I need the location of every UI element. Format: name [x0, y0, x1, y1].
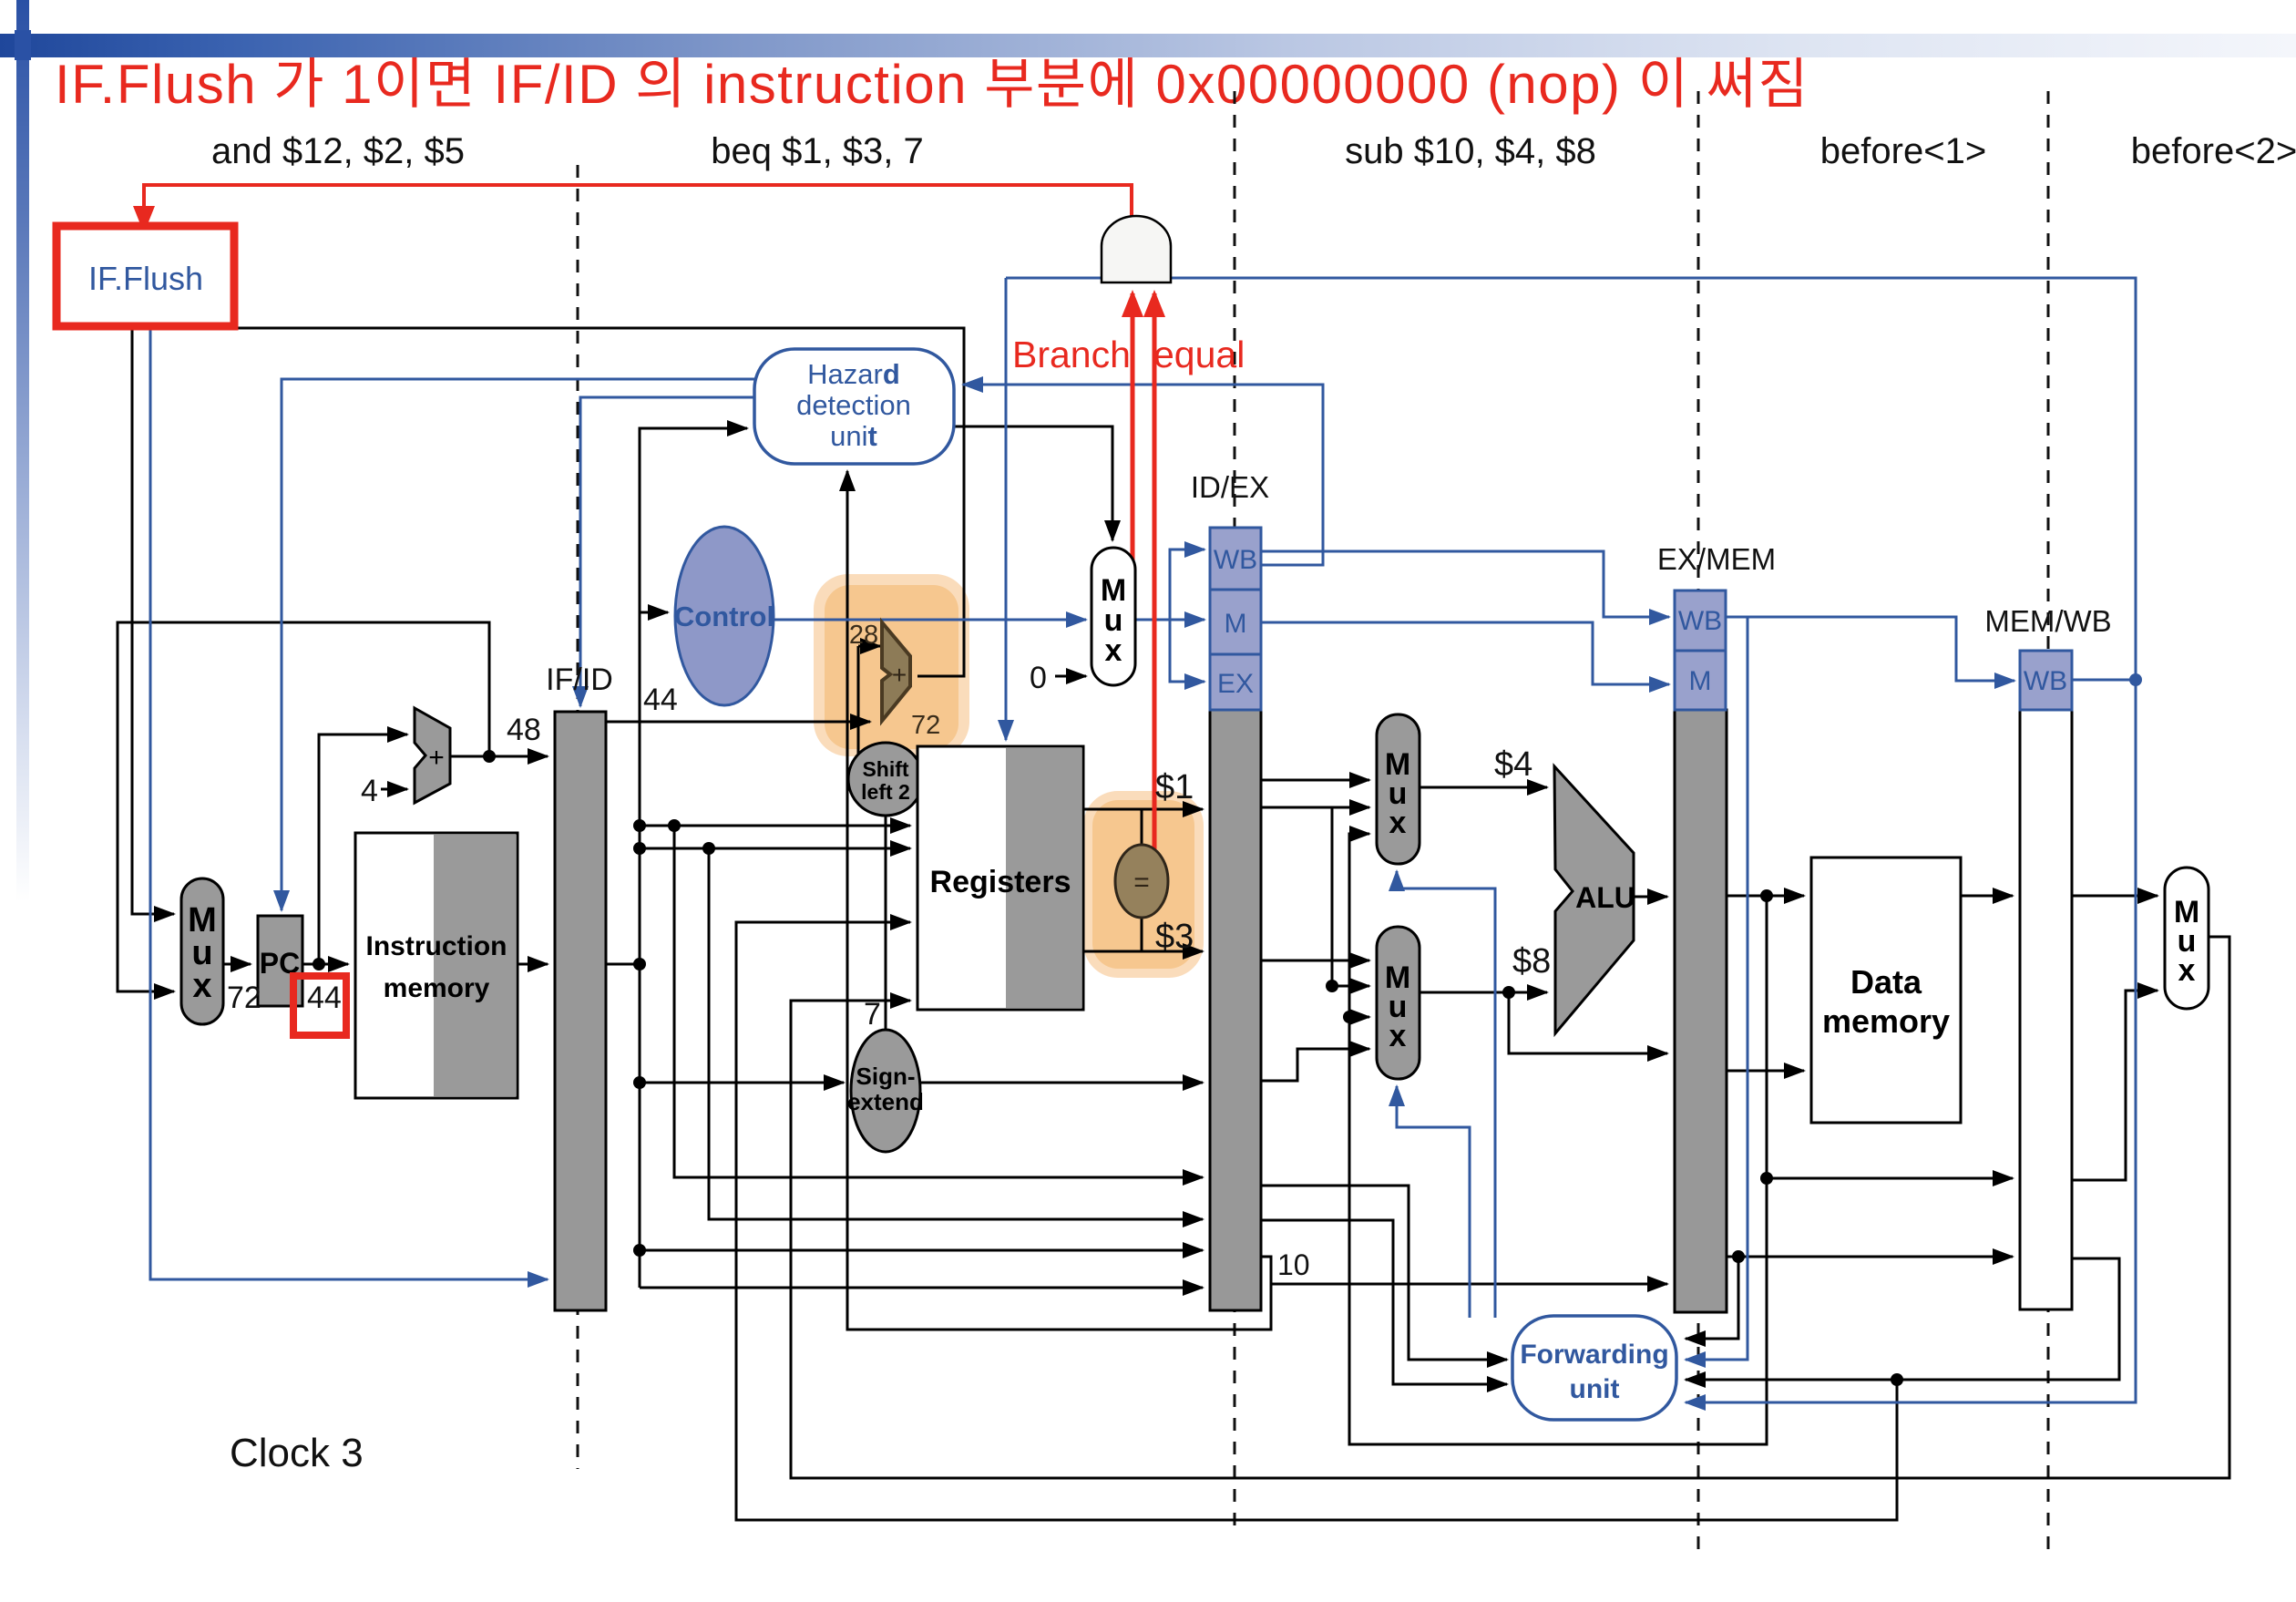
svg-text:Sign-: Sign- — [856, 1063, 916, 1090]
svg-text:Registers: Registers — [930, 865, 1071, 899]
wire: Branch signal up into AND gate — [1131, 293, 1135, 630]
wire: ID/EX read1 to ALU mux A input 1 — [1261, 779, 1369, 782]
junction: bus to read register 1 — [633, 819, 646, 832]
wire: discard mux output to ID/EX M — [1135, 619, 1204, 621]
Hazard detection unit — [754, 349, 954, 464]
stage divider dashed line 3 — [1697, 91, 1700, 1549]
wire: instruction bus up into hazard detection unit — [640, 427, 738, 430]
junction: writeback register number tap — [1891, 1373, 1903, 1386]
MEM/WB WB box — [2020, 651, 2072, 710]
wire: writeback riser joining both forward muxes — [1332, 807, 1369, 986]
wire: forwarding select A up to ALU mux A — [1397, 871, 1495, 1318]
svg-text:detection: detection — [796, 389, 911, 421]
wire: bus stub into Control — [640, 611, 668, 614]
wire: hazard IF/IDWrite to IF/ID — [580, 397, 754, 706]
svg-text:unit: unit — [830, 420, 877, 452]
junction: bus to read register 2 — [633, 842, 646, 855]
svg-text:x: x — [1105, 633, 1122, 668]
svg-text:x: x — [192, 967, 211, 1005]
wire: MEM/WB ALU result to writeback mux — [2072, 991, 2158, 1180]
svg-text:$3: $3 — [1155, 918, 1194, 956]
ID/EX M box — [1210, 590, 1261, 654]
ID/EX WB box — [1210, 528, 1261, 590]
svg-text:Clock 3: Clock 3 — [230, 1431, 364, 1475]
wire: rd field down to ID/EX — [709, 848, 1203, 1219]
wire: EX/MEM rd register number to MEM/WB — [1727, 1256, 2013, 1258]
wire: EX/MEM WB to MEM/WB WB — [1726, 617, 2014, 681]
wire: MEM/WB read data to writeback mux — [2072, 895, 2158, 898]
junction: PC+4 tap — [483, 750, 496, 763]
svg-text:=: = — [1133, 868, 1150, 898]
wire: constant 4 into adder — [381, 788, 407, 791]
wire: EX/MEM rd down into forwarding unit — [1686, 1257, 1738, 1339]
wire: IF.Flush from AND gate to IF.Flush box — [144, 185, 1132, 230]
AND gate (IF.Flush = Branch AND equal) — [1102, 216, 1171, 282]
wire: ALU mux A output $4 — [1420, 786, 1547, 789]
wire: instruction field to ID/EX lower — [640, 1287, 1203, 1289]
wire: ID/EX WB feed to hazard unit — [963, 385, 1323, 565]
svg-text:beq $1, $3, 7: beq $1, $3, 7 — [711, 131, 924, 171]
wire: ID/EX M to EX/MEM M — [1261, 622, 1669, 684]
stage divider dashed line 1 — [577, 165, 579, 1469]
junction: ALU result tap — [1760, 889, 1773, 902]
wire: writeback value to ALU mux A input 2 — [1261, 806, 1369, 809]
discard mux (zeroes control) — [1092, 548, 1135, 685]
wire: EX/MEM WB down to forwarding unit — [1686, 617, 1748, 1360]
svg-text:and $12, $2, $5: and $12, $2, $5 — [211, 131, 465, 171]
svg-text:48: 48 — [507, 713, 541, 747]
writeback mux — [2165, 868, 2209, 1009]
junction: instruction stub on bus — [633, 958, 646, 970]
wire: Control output to discard mux — [774, 619, 1086, 621]
Forwarding unit — [1512, 1316, 1676, 1420]
wire: ALU output to EX/MEM — [1634, 896, 1667, 899]
wire: IF/ID instruction stub to bus — [606, 963, 640, 966]
wire: ID/EX WB to EX/MEM WB — [1261, 551, 1669, 617]
svg-text:$1: $1 — [1155, 768, 1194, 806]
equality comparator — [1115, 845, 1168, 918]
EX/MEM pipeline register — [1675, 710, 1727, 1312]
junction: writeback riser to mux B — [1326, 980, 1338, 992]
junction: store data tap — [1502, 986, 1515, 999]
svg-text:EX/MEM: EX/MEM — [1657, 542, 1776, 576]
wire: writeback data loop from final mux to Registers — [791, 937, 2229, 1478]
svg-text:x: x — [1389, 1019, 1407, 1053]
svg-text:$4: $4 — [1494, 745, 1532, 784]
wire: store data from mux B to EX/MEM — [1509, 992, 1667, 1053]
svg-text:72: 72 — [227, 981, 261, 1015]
svg-text:Forwarding: Forwarding — [1520, 1340, 1668, 1370]
wire: EX/MEM ALU result to data memory address — [1727, 895, 1804, 898]
wire: ID/EX read2 to ALU mux B input 1 — [1261, 960, 1369, 962]
svg-text:Branch: Branch — [1012, 334, 1131, 375]
svg-text:before<1>: before<1> — [1820, 131, 1986, 171]
junction: upper field tap — [633, 1244, 646, 1257]
branch adder (highlighted) — [882, 622, 910, 721]
svg-text:Shift: Shift — [862, 757, 908, 781]
svg-text:4: 4 — [361, 774, 378, 808]
wire: forward loop branch to ALU mux B input 3 — [1349, 1016, 1369, 1019]
svg-text:$8: $8 — [1512, 942, 1551, 981]
stage divider dashed line 4 — [2047, 91, 2050, 1549]
svg-text:28: 28 — [849, 621, 878, 650]
svg-text:Instruction: Instruction — [366, 931, 507, 961]
svg-text:WB: WB — [1214, 545, 1257, 575]
junction: ALU result to MEM/WB — [1760, 1172, 1773, 1185]
svg-text:72: 72 — [911, 711, 940, 740]
svg-text:unit: unit — [1570, 1374, 1620, 1404]
wire: shift-left-2 output up into branch adder — [858, 645, 880, 648]
Control unit ellipse — [675, 527, 774, 705]
svg-text:memory: memory — [1822, 1002, 1950, 1040]
svg-text:M: M — [1225, 609, 1247, 639]
wire: instruction vertical bus — [640, 428, 747, 1288]
junction: PC output tap — [313, 958, 325, 970]
svg-text:sub $10, $4, $8: sub $10, $4, $8 — [1345, 131, 1596, 171]
wire: hazard unit output to control mux select — [954, 426, 1112, 540]
wire: PC value riser to +4 adder top input — [319, 734, 407, 964]
svg-text:10: 10 — [1277, 1248, 1310, 1281]
svg-text:x: x — [2178, 953, 2196, 988]
wire: register read data 1 ($1) to ID/EX — [1083, 808, 1203, 811]
wire: EX/MEM store data to data memory — [1727, 1070, 1804, 1073]
wire: read register 2 — [640, 847, 910, 850]
wire: register number 10 to EX/MEM — [1261, 1257, 1667, 1284]
wire: MEM/WB rd to forwarding unit — [1686, 1258, 2119, 1380]
svg-text:ID/EX: ID/EX — [1191, 470, 1269, 504]
svg-text:Hazard: Hazard — [807, 358, 900, 390]
orange highlight around branch adder — [814, 574, 969, 756]
junction: rd field tap — [702, 842, 715, 855]
red highlight box near PC output (44) — [293, 976, 346, 1035]
svg-text:WB: WB — [1678, 606, 1722, 636]
wire: RegWrite down into Registers — [1005, 278, 1008, 740]
MEM/WB pipeline register — [2020, 710, 2072, 1309]
svg-text:IF.Flush: IF.Flush — [88, 260, 203, 297]
wire: immediate field to sign-extend — [640, 1082, 844, 1084]
ID/EX pipeline register — [1210, 710, 1261, 1310]
junction: rt field tap — [668, 819, 681, 832]
EX/MEM M box — [1675, 651, 1726, 710]
wire: forwarding select B up to ALU mux B — [1397, 1086, 1470, 1318]
PC+4 adder — [415, 708, 450, 803]
wire: control split to WB and EX — [1170, 549, 1194, 682]
wire: branch target adder output to PC-mux input 1 — [132, 328, 964, 914]
wire: ID/EX immediate staircase to ALU mux B input 4 — [1261, 1049, 1369, 1081]
wire: MEM/WB WB stub to bus — [2072, 679, 2136, 682]
wire: instruction field to ID/EX upper — [640, 1249, 1203, 1252]
svg-text:Control: Control — [674, 601, 774, 632]
ALU — [1554, 766, 1634, 1033]
svg-text:WB: WB — [2024, 666, 2067, 696]
wire: PC to instruction memory — [302, 963, 348, 966]
wire: rt field down to ID/EX — [674, 826, 1203, 1177]
svg-text:EX: EX — [1217, 669, 1254, 699]
svg-text:Data: Data — [1850, 963, 1922, 1001]
svg-text:+: + — [892, 661, 907, 689]
wire: sign-extend up to shift left 2 — [885, 815, 887, 1032]
svg-text:ALU: ALU — [1575, 881, 1635, 914]
junction: immediate tap — [633, 1076, 646, 1089]
svg-text:left 2: left 2 — [861, 780, 910, 804]
ID/EX EX box — [1210, 654, 1261, 710]
slide vertical accent bar — [16, 0, 29, 902]
wire: sign-extend output to ID/EX — [920, 1082, 1203, 1084]
wire: PC+4 loop back to PC-mux input 2 — [118, 622, 489, 991]
wire: IF.Flush signal down to IF/ID — [150, 296, 548, 1279]
wire: writeback control top bus — [1006, 278, 2136, 1402]
svg-text:equal: equal — [1153, 334, 1245, 375]
svg-text:44: 44 — [643, 683, 678, 717]
junction: forward loop to mux B — [1343, 1011, 1356, 1023]
wire: data memory read data to MEM/WB — [1961, 895, 2013, 898]
ALU forward mux B — [1377, 927, 1420, 1079]
PC register — [258, 916, 302, 1006]
Sign-extend — [851, 1030, 920, 1152]
wire: hazard PCWrite to PC — [282, 379, 754, 910]
wire: adder output (48) into IF/ID — [450, 755, 548, 758]
wire: writeback register number loop to Registers — [736, 922, 1897, 1520]
Registers — [917, 746, 1083, 1010]
IF.Flush red box — [56, 226, 234, 326]
svg-text:extend: extend — [847, 1088, 924, 1115]
wire: read register 1 — [640, 825, 910, 827]
wire: ID/EX rt to forwarding unit — [1261, 1220, 1507, 1384]
Shift left 2 — [848, 743, 923, 816]
wire: equal signal from comparator up into AND gate — [1153, 293, 1157, 863]
wire: comparator taps — [1141, 809, 1143, 951]
stage divider dashed line 2 — [1234, 91, 1236, 1531]
svg-text:0: 0 — [1030, 661, 1047, 695]
svg-text:IF.Flush 가 1이면 IF/ID 의 instruc: IF.Flush 가 1이면 IF/ID 의 instruction 부분에 0… — [55, 54, 1809, 115]
PC source mux — [181, 878, 223, 1024]
svg-text:x: x — [1389, 806, 1407, 840]
svg-text:IF/ID: IF/ID — [546, 662, 613, 697]
svg-text:memory: memory — [384, 973, 490, 1003]
wire: PC-mux output to PC — [223, 963, 251, 966]
svg-text:44: 44 — [307, 981, 342, 1015]
Data memory — [1811, 857, 1961, 1123]
wire: ALU result branch to MEM/WB — [1767, 1177, 2013, 1180]
svg-text:+: + — [428, 743, 445, 773]
wire: ID/EX.RegisterRt back to hazard detection unit — [847, 471, 1271, 1330]
wire: EX/MEM ALU result forwarding loop — [1349, 834, 1767, 1444]
svg-text:7: 7 — [864, 997, 881, 1032]
svg-text:M: M — [1689, 666, 1712, 696]
junction: EX/MEM rd tap — [1732, 1250, 1745, 1263]
svg-text:before<2>: before<2> — [2131, 131, 2296, 171]
wire: select 0 into discard mux — [1055, 675, 1086, 678]
wire: ALU mux B output $8 — [1420, 991, 1547, 994]
slide horizontal accent bar — [0, 34, 2296, 57]
wire: instruction memory to IF/ID — [518, 963, 548, 966]
EX/MEM WB box — [1675, 590, 1726, 651]
Instruction memory — [355, 833, 518, 1098]
junction dot (blue) on writeback bus — [2129, 673, 2142, 686]
wire: IF/ID PC+4 (44) to branch adder — [606, 721, 870, 724]
wire: register read data 2 ($3) to ID/EX — [1083, 950, 1203, 953]
wire: ID/EX rs to forwarding unit — [1261, 1186, 1507, 1360]
ALU forward mux A — [1377, 714, 1420, 864]
IF/ID pipeline register — [555, 712, 606, 1310]
svg-text:MEM/WB: MEM/WB — [1984, 604, 2111, 638]
orange highlight around equality comparator — [1083, 791, 1204, 978]
